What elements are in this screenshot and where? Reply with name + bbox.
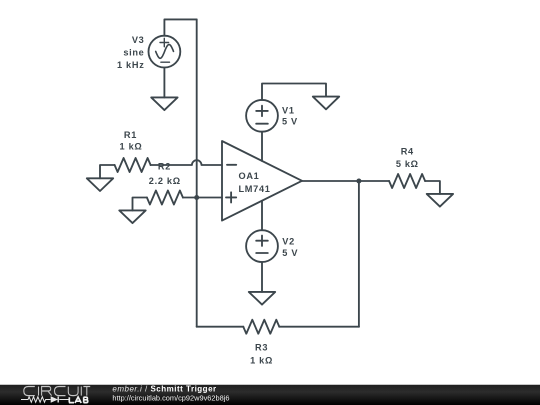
wire V3 top to main vertical: [164, 19, 196, 35]
ground (R1): [87, 178, 113, 191]
svg-text:LM741: LM741: [239, 184, 271, 194]
wire op-amp output to R4: [302, 180, 389, 182]
node junction at plus input: [194, 195, 199, 200]
resistor R4: [389, 174, 425, 188]
svg-text:R3: R3: [255, 343, 268, 353]
resistor R1: [115, 158, 151, 172]
logo diode triangle: [51, 396, 58, 402]
wire R1 ground lead: [100, 165, 115, 178]
svg-text:5 kΩ: 5 kΩ: [396, 159, 419, 169]
wire R2 ground lead: [133, 198, 147, 211]
wire main vertical net: [196, 19, 198, 326]
voltage source V3 (sine): [149, 36, 181, 68]
svg-text:2.2 kΩ: 2.2 kΩ: [149, 176, 181, 186]
wire V1 top to ground: [262, 84, 326, 100]
ground (V2): [249, 292, 275, 305]
svg-text:V1: V1: [282, 105, 295, 115]
op-amp minus input symbol: [227, 164, 236, 166]
svg-text:R1: R1: [124, 130, 137, 140]
svg-text:sine: sine: [123, 48, 144, 58]
logo LAB text: [69, 397, 88, 403]
resistor R3: [243, 320, 279, 334]
CircuitLab logo CIRCUIT text: [24, 386, 90, 395]
svg-text:V3: V3: [132, 35, 145, 45]
node junction at output: [356, 179, 361, 184]
logo resistor-diode line: [21, 397, 69, 403]
wire V3 bottom to ground: [163, 68, 165, 98]
wire output node down right side: [358, 181, 360, 327]
ground (R2): [119, 210, 145, 223]
svg-text:R2: R2: [158, 161, 171, 171]
svg-text:1 kHz: 1 kHz: [117, 60, 145, 70]
svg-text:1 kΩ: 1 kΩ: [120, 142, 143, 152]
ground (V1): [313, 97, 339, 110]
svg-text:R4: R4: [401, 147, 414, 157]
wire V2 bottom to ground: [261, 262, 263, 292]
svg-text:5 V: 5 V: [282, 117, 298, 127]
ground (R4): [427, 194, 453, 207]
svg-text:V2: V2: [282, 237, 295, 247]
svg-text:1 kΩ: 1 kΩ: [250, 356, 273, 366]
wire op-amp V- pin to V2: [261, 201, 263, 230]
wire bottom feedback right segment: [279, 326, 359, 328]
op-amp OA1 triangle: [222, 141, 302, 221]
resistor R2: [147, 191, 183, 205]
wire R4 to ground: [425, 181, 440, 194]
svg-text:5 V: 5 V: [282, 248, 298, 258]
wire R2 to op-amp plus input: [183, 197, 222, 199]
ground (V3): [151, 97, 177, 110]
svg-text:ember.i / Schmitt Trigger: ember.i / Schmitt Trigger: [112, 385, 216, 394]
wire op-amp V+ pin to V1: [261, 132, 263, 161]
svg-text:OA1: OA1: [239, 171, 260, 181]
voltage source V2: [246, 230, 278, 262]
wire R1 to op-amp minus input (with hop over vertical): [151, 160, 222, 165]
op-amp plus input symbol: [226, 192, 236, 202]
svg-text:http://circuitlab.com/cp92w9v6: http://circuitlab.com/cp92w9v62b8j6: [112, 393, 229, 402]
voltage source V1: [246, 100, 278, 132]
wire bottom feedback left segment: [197, 326, 244, 328]
